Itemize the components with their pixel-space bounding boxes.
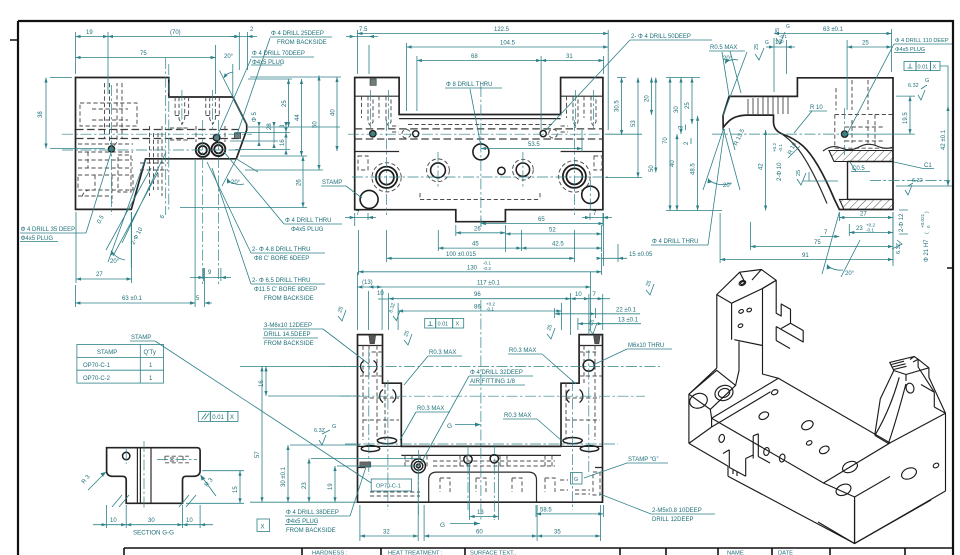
svg-text:2- Φ 4.8 DRILL THRU: 2- Φ 4.8 DRILL THRU: [252, 247, 310, 253]
svg-text:53: 53: [631, 120, 637, 127]
plug square marker: [234, 133, 240, 139]
svg-text:G: G: [574, 477, 578, 483]
left column cap line: [358, 345, 603, 347]
svg-text:Φ11.5 C’ BORE 8DEEP: Φ11.5 C’ BORE 8DEEP: [254, 287, 317, 293]
centerlines: [330, 300, 660, 520]
dim 40: [670, 134, 679, 210]
label drill 38deep: [285, 467, 366, 534]
dim 30 u: [281, 445, 360, 502]
dim 10 right: [571, 292, 589, 335]
svg-text:38: 38: [38, 111, 44, 118]
iso tower front faces: [717, 289, 779, 386]
dim 27: [839, 212, 893, 267]
svg-text:Φ 4 DRILL 110 DEEP: Φ 4 DRILL 110 DEEP: [895, 38, 949, 44]
label 2-M5: [600, 494, 715, 523]
svg-text:-0.2: -0.2: [483, 266, 491, 271]
svg-text:Φ 4 DRILL THRU: Φ 4 DRILL THRU: [285, 218, 331, 224]
svg-text:44: 44: [295, 114, 301, 121]
dim 3: [679, 125, 686, 131]
svg-text:104.5: 104.5: [500, 41, 516, 47]
plug cap right column: [594, 335, 601, 344]
svg-text:G: G: [765, 40, 769, 46]
dim 7.5: [346, 27, 378, 74]
svg-text:15 ±0.05: 15 ±0.05: [629, 252, 653, 258]
svg-text:2-Φ 12: 2-Φ 12: [899, 213, 905, 232]
svg-text:30: 30: [148, 518, 155, 524]
left column inner steps: [355, 96, 603, 151]
iso plate holes: [771, 389, 779, 396]
centerlines: [348, 86, 610, 228]
svg-text:30 ±0.1: 30 ±0.1: [281, 466, 287, 487]
centerlines: [712, 108, 950, 181]
dim 22: [555, 308, 640, 318]
stamp G box: [571, 473, 583, 485]
svg-text:25: 25: [862, 41, 869, 47]
svg-text:G: G: [332, 424, 336, 430]
iso front step faces: [712, 392, 771, 476]
label drill thru plug: [224, 152, 342, 233]
hidden features in left block: [78, 103, 225, 203]
dim 38: [38, 78, 105, 149]
svg-text:57: 57: [255, 451, 261, 458]
ext bottom left: [250, 501, 357, 503]
svg-text:19.5: 19.5: [903, 112, 909, 124]
dim 63: [75, 160, 195, 307]
svg-text:7.5: 7.5: [359, 27, 368, 33]
marks under feet: [112, 495, 196, 507]
svg-text:75: 75: [814, 240, 821, 246]
front view outline: [355, 78, 603, 222]
left column hidden slots: [358, 96, 399, 170]
svg-text:OP70-C-2: OP70-C-2: [83, 376, 111, 382]
M6 hole right column: [583, 360, 594, 371]
dim 35 bottom: [537, 505, 600, 541]
svg-text:X: X: [230, 415, 234, 421]
left column bore: [376, 167, 397, 188]
dim 57: [240, 366, 360, 502]
hatch lower strip: [839, 199, 893, 209]
label C1: [894, 162, 934, 169]
dim 16 u: [259, 366, 360, 396]
X datum box: [257, 519, 270, 532]
dim 45: [438, 230, 521, 251]
dim 32 bottom: [360, 470, 418, 541]
svg-text:R0.5 MAX: R0.5 MAX: [710, 45, 737, 51]
dim 20 rot: [645, 78, 654, 115]
section centerlines: [126, 441, 197, 509]
iso mid block: [763, 280, 804, 342]
svg-text:45: 45: [472, 242, 479, 248]
hidden through-hole band: [76, 130, 240, 139]
hidden web recess: [408, 125, 552, 200]
svg-text:13: 13: [477, 510, 484, 516]
dim 63: [774, 27, 892, 92]
label R0.5 MAX: [709, 45, 745, 93]
fcf u view: [425, 319, 464, 329]
counterbore hole pair (side): [196, 142, 226, 157]
svg-text:NAME: NAME: [727, 551, 744, 555]
dim 122.5: [357, 27, 608, 130]
svg-text:23: 23: [856, 226, 863, 232]
label R 10 rotated: [787, 141, 800, 158]
break line wavy: [823, 144, 893, 151]
hole arcs left column: [361, 361, 583, 403]
svg-text:10: 10: [377, 291, 384, 297]
dim 68: [417, 54, 541, 130]
dim 23 u: [302, 459, 420, 503]
label 4.8 drill: [207, 162, 325, 262]
svg-text:Φ 21 H7: Φ 21 H7: [924, 239, 930, 262]
svg-text:52: 52: [549, 227, 556, 233]
dim 27: [76, 212, 132, 283]
dim 3: [280, 122, 288, 138]
dim 104.5: [407, 41, 609, 112]
svg-text:-0.1: -0.1: [866, 228, 874, 233]
plugged hole: [841, 131, 847, 137]
svg-text:122.5: 122.5: [494, 27, 510, 33]
centerlines: [62, 58, 252, 285]
svg-text:DATE: DATE: [778, 551, 793, 555]
parallelism frame: [198, 411, 238, 421]
iso shoulder holes: [688, 391, 710, 411]
dim 15: [597, 244, 653, 262]
dim (13): [357, 272, 382, 330]
angle 20 bottom right: [822, 212, 860, 277]
dim 75: [751, 222, 894, 250]
angle 20 left: [703, 129, 740, 190]
label phi4 drill thru mid: [651, 129, 725, 245]
finish 6.3 small: [388, 302, 400, 320]
svg-text:25: 25: [796, 170, 802, 176]
dim 50 rot: [649, 78, 658, 173]
svg-text:68: 68: [471, 54, 478, 60]
dim 2: [230, 27, 257, 70]
svg-text:R0.3 MAX: R0.3 MAX: [504, 413, 531, 419]
svg-text:6.32: 6.32: [908, 83, 919, 89]
dim 25 right: [847, 40, 891, 110]
dim 15 section: [186, 471, 244, 504]
svg-text:42.5: 42.5: [552, 242, 564, 248]
svg-text:G: G: [440, 522, 445, 529]
svg-text:R 10: R 10: [810, 105, 823, 111]
svg-text:2- Φ 4 DRILL 50DEEP: 2- Φ 4 DRILL 50DEEP: [631, 34, 691, 40]
svg-text:R0.3 MAX: R0.3 MAX: [509, 348, 536, 354]
svg-text:AIR FITTING 1/8: AIR FITTING 1/8: [470, 379, 516, 385]
hidden lines base: [370, 455, 600, 496]
hidden drill slots from top: [105, 83, 220, 196]
svg-text:-0.1: -0.1: [778, 144, 783, 152]
angle 20 top chamfer: [220, 54, 247, 125]
dim 70: [663, 78, 722, 211]
svg-text:2- Φ 6.5 DRILL THRU: 2- Φ 6.5 DRILL THRU: [252, 278, 310, 284]
finish 25 mid: [796, 170, 838, 185]
angle 20 mid: [222, 159, 258, 186]
STAMP label left: [321, 180, 362, 198]
svg-text:(13): (13): [362, 280, 373, 286]
iso bottom edges: [689, 413, 946, 543]
svg-text:STAMP: STAMP: [322, 180, 342, 186]
dim 19.5: [850, 96, 915, 134]
dim 117: [369, 272, 591, 330]
stamp leader long: [155, 341, 371, 483]
dim 7 bottom-right: [582, 211, 612, 226]
svg-text:Φ 4 DRILL 25DEEP: Φ 4 DRILL 25DEEP: [271, 31, 324, 37]
svg-text:Φ 4 DRILL 35 DEEP: Φ 4 DRILL 35 DEEP: [21, 227, 76, 233]
side hole ellipses: [361, 438, 598, 452]
svg-text:Φ 4 DRILL THRU: Φ 4 DRILL THRU: [652, 239, 698, 245]
label R 10: [794, 105, 827, 133]
dim 2-phi12 rot: [899, 210, 908, 234]
label drill 110 deep: [846, 38, 952, 136]
angle 20 top: [722, 52, 747, 116]
inner step line under top web: [399, 118, 560, 120]
dim 13: [766, 34, 795, 74]
svg-text:96: 96: [474, 292, 481, 298]
svg-text:63 ±0.1: 63 ±0.1: [823, 27, 844, 33]
dim 2: [684, 138, 691, 145]
dim 25: [282, 79, 290, 127]
svg-text:STAMP “G”: STAMP “G”: [628, 457, 658, 463]
svg-text:G: G: [786, 24, 790, 30]
svg-text:20°: 20°: [723, 56, 733, 62]
dim 86: [398, 302, 561, 331]
label drill 35 deep: [20, 151, 112, 242]
chamfer leaders bottom-left: [96, 152, 166, 256]
svg-text:X: X: [933, 64, 937, 70]
dim 13 bottom: [470, 462, 499, 520]
svg-text:R0.3 MAX: R0.3 MAX: [429, 350, 456, 356]
section dashed slot: [165, 456, 189, 463]
U view outline: [358, 335, 603, 503]
svg-text:G: G: [447, 423, 452, 430]
bottom-left hole: [360, 190, 378, 208]
svg-text:Φ4x5 PLUG: Φ4x5 PLUG: [291, 227, 324, 233]
svg-text:20: 20: [645, 95, 651, 102]
svg-text:50: 50: [649, 165, 655, 172]
svg-text:10: 10: [186, 518, 193, 524]
label drill 70deep: [218, 51, 315, 136]
dim 19 u: [328, 466, 420, 502]
svg-text:FROM BACKSIDE: FROM BACKSIDE: [286, 528, 336, 534]
table: [77, 345, 164, 384]
svg-text:STAMP: STAMP: [131, 335, 151, 341]
svg-text:-0.1: -0.1: [486, 307, 494, 312]
section vertical hole lines: [137, 448, 151, 504]
svg-text:31: 31: [566, 54, 573, 60]
dim 53.5 inside: [481, 130, 582, 152]
dim 40: [331, 77, 339, 151]
dim 7 right: [589, 292, 610, 330]
stamp box OP70-C: [371, 479, 411, 491]
label M6x10 thru: [593, 343, 672, 365]
svg-text:Φ 4 DRILL 32DEEP: Φ 4 DRILL 32DEEP: [470, 370, 523, 376]
hidden bore top right: [835, 80, 893, 148]
finish 6.3 G: [314, 424, 336, 445]
dim 16: [280, 128, 288, 155]
svg-text:X: X: [261, 525, 265, 531]
iso right tower cap: [890, 357, 929, 375]
dim 42 mid: [759, 130, 768, 211]
label R3 right: [201, 475, 217, 496]
dim 9: [190, 268, 231, 281]
dim 42.5: [521, 242, 601, 250]
dim 7: [820, 230, 839, 238]
svg-text:117 ±0.1: 117 ±0.1: [477, 281, 501, 287]
label R 13.5: [729, 128, 747, 150]
plugged hole (filled): [213, 134, 220, 141]
inner S-curve: [780, 133, 828, 204]
svg-text:27: 27: [860, 212, 867, 218]
plugged hole left column: [370, 131, 376, 137]
dim 60 bottom: [424, 505, 537, 541]
iso base left face: [689, 394, 712, 443]
section small hole: [123, 452, 130, 459]
svg-text:16: 16: [280, 139, 286, 146]
svg-text:6.32: 6.32: [912, 178, 923, 184]
svg-text:100 ±0.015: 100 ±0.015: [446, 252, 477, 258]
small center hole: [498, 167, 505, 174]
hatch upper strip: [829, 151, 893, 162]
svg-text:STAMP: STAMP: [97, 350, 117, 356]
shared extension lines: [180, 77, 341, 208]
bore cavity: [848, 162, 894, 200]
svg-text:86: 86: [474, 305, 481, 311]
dim 30: [674, 78, 683, 135]
iso tower face holes: [738, 309, 744, 314]
dim (70): [108, 30, 239, 70]
dim 13b: [578, 318, 641, 330]
small holes row: [413, 131, 547, 137]
svg-text:23: 23: [302, 482, 308, 489]
svg-text:X: X: [456, 322, 460, 328]
svg-text:Q’Ty: Q’Ty: [144, 350, 156, 356]
iso tower hole: [905, 382, 915, 394]
angle 20 bottom: [108, 159, 146, 268]
svg-text:48.5: 48.5: [691, 163, 697, 175]
svg-text:63 ±0.1: 63 ±0.1: [122, 296, 143, 302]
svg-text:91: 91: [802, 253, 809, 259]
iso right tower body: [875, 359, 946, 434]
dim 305 rotated: [615, 78, 626, 136]
dim 10 left: [377, 291, 389, 299]
dim 75: [76, 45, 216, 94]
svg-text:40: 40: [331, 109, 337, 116]
iso hook curves: [875, 377, 906, 443]
title block: [124, 548, 953, 555]
label 2-phi4 drill 50deep: [545, 34, 712, 131]
iso tower-plate edge: [776, 341, 790, 349]
dim 52: [505, 225, 601, 252]
svg-text:FROM BACKSIDE: FROM BACKSIDE: [264, 296, 314, 302]
svg-text:-0.1: -0.1: [483, 261, 491, 266]
svg-text:SURFACE TEXT..: SURFACE TEXT..: [470, 551, 517, 555]
base top edge left of column: [358, 445, 603, 447]
svg-text:53.5: 53.5: [528, 142, 540, 148]
svg-text:HEAT TREATMENT :: HEAT TREATMENT :: [388, 551, 443, 555]
svg-text:Φ 5: Φ 5: [252, 112, 258, 122]
dims 10 30 10: [93, 505, 213, 528]
svg-text:OP70-C-1: OP70-C-1: [376, 484, 401, 490]
plug marker dark: [360, 462, 371, 467]
iso right step: [890, 385, 946, 443]
svg-text:0.01: 0.01: [438, 322, 449, 328]
dim 28: [267, 122, 276, 148]
dim 5: [190, 268, 212, 307]
svg-text:R0.3 MAX: R0.3 MAX: [417, 406, 444, 412]
bottom-right hole: [582, 186, 599, 203]
svg-text:15: 15: [233, 486, 239, 493]
small holes base: [464, 455, 472, 463]
label drill 25deep: [238, 31, 333, 133]
svg-text:19: 19: [328, 483, 334, 490]
dim 58.5: [536, 505, 603, 517]
svg-text:FROM BACKSIDE: FROM BACKSIDE: [277, 40, 327, 46]
iso front face holes: [718, 434, 725, 443]
dim 7 bottom-left: [345, 211, 376, 226]
svg-text:25: 25: [775, 28, 781, 34]
svg-text:DRILL 14.5DEEP: DRILL 14.5DEEP: [264, 332, 310, 338]
label 6.5 drill: [212, 168, 325, 302]
iso plate top face: [712, 378, 890, 483]
svg-text:20°: 20°: [723, 183, 733, 189]
svg-text:20°: 20°: [224, 54, 234, 60]
svg-text:32: 32: [383, 530, 390, 536]
svg-text:10: 10: [575, 292, 582, 298]
svg-text:13 ±0.1: 13 ±0.1: [618, 318, 639, 324]
svg-text:27: 27: [96, 272, 103, 278]
svg-text:Φ 4 DRILL 38DEEP: Φ 4 DRILL 38DEEP: [286, 510, 339, 516]
svg-text:26: 26: [474, 226, 481, 232]
svg-text:75: 75: [140, 51, 147, 57]
label R3 left: [81, 472, 106, 490]
svg-text:20°: 20°: [845, 271, 855, 277]
dim 91: [720, 212, 893, 263]
air fitting hole: [411, 459, 425, 473]
svg-text:Φ 8 DRILL THRU: Φ 8 DRILL THRU: [446, 82, 492, 88]
svg-text:G: G: [925, 78, 929, 84]
svg-text:40: 40: [670, 160, 676, 167]
svg-text:Φ 4 DRILL 70DEEP: Φ 4 DRILL 70DEEP: [252, 51, 305, 57]
right column bore: [563, 165, 586, 188]
mid-right hole: [516, 163, 529, 176]
svg-text:42: 42: [759, 163, 765, 170]
label air fitting: [421, 370, 533, 463]
svg-text:30: 30: [674, 106, 680, 113]
svg-text:OP70-C-1: OP70-C-1: [83, 363, 111, 369]
iso shoulder top face: [689, 368, 736, 409]
right column hidden slots: [561, 96, 602, 170]
R0.3 labels: [404, 350, 462, 385]
svg-text:+0.021: +0.021: [920, 213, 925, 228]
dim phi21 H7 rot: [920, 211, 931, 262]
svg-text:0.01: 0.01: [918, 64, 929, 70]
hidden lines columns: [360, 346, 602, 441]
dim 53 rotated: [605, 78, 642, 178]
svg-text:10: 10: [110, 518, 117, 524]
svg-text:20°: 20°: [231, 180, 241, 186]
svg-text:Φ8 C’ BORE 6DEEP: Φ8 C’ BORE 6DEEP: [254, 256, 309, 262]
section view outline: [723, 78, 893, 210]
section G-G outline: [107, 448, 201, 504]
dim 42 right: [896, 106, 952, 186]
svg-text:2-M5x0.8 10DEEP: 2-M5x0.8 10DEEP: [652, 508, 702, 514]
stamp label: [130, 335, 155, 341]
svg-text:60: 60: [476, 530, 483, 536]
svg-text:25: 25: [282, 100, 288, 107]
svg-text:FROM BACKSIDE: FROM BACKSIDE: [264, 341, 314, 347]
dim 65: [481, 213, 604, 266]
dim 130: [358, 230, 601, 275]
